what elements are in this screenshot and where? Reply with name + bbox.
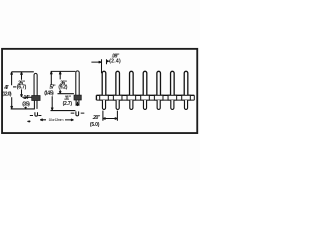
svg-text:(12.0): (12.0)	[2, 91, 12, 97]
header pin 3	[127, 71, 136, 109]
dim .20 line with arrows	[103, 118, 118, 120]
extension line tip P2	[51, 110, 76, 112]
header pin 5	[154, 71, 163, 109]
dim 10or13 left arrow	[40, 119, 46, 121]
header pins	[100, 71, 191, 109]
dim .09 right arrow	[106, 61, 109, 62]
dim 10or13 small right arrow	[27, 121, 30, 122]
pin P2 body	[76, 71, 79, 95]
svg-text:(5.0): (5.0)	[90, 122, 100, 128]
header base strip	[96, 95, 194, 100]
pin P2 tail	[76, 100, 79, 106]
pin P2 tip piece	[76, 111, 79, 115]
svg-text:(6.7): (6.7)	[17, 84, 27, 90]
svg-text:.47: .47	[4, 85, 9, 91]
extension line collar P2	[58, 93, 74, 95]
pin P1 collar	[32, 96, 40, 101]
svg-text:(2.7): (2.7)	[63, 101, 73, 107]
extension line top P2	[51, 70, 76, 72]
header pin 6	[168, 71, 177, 109]
svg-text:10 or 13mm: 10 or 13mm	[49, 118, 64, 122]
dim .47 down arrow	[11, 97, 13, 108]
extension line tip P1	[11, 108, 35, 110]
dim .26 up arrow	[21, 72, 23, 80]
svg-text:.14”: .14”	[23, 95, 30, 101]
extension line top P1	[12, 71, 34, 73]
pin P1 tail	[34, 101, 37, 109]
dim 10or13 right arrow	[65, 119, 74, 121]
header pin 1	[100, 71, 109, 109]
svg-text:(14.5): (14.5)	[44, 91, 54, 97]
pin P2 collar	[74, 95, 81, 100]
border frame	[2, 49, 197, 133]
svg-text:(9.2): (9.2)	[58, 85, 67, 91]
dim .26 down arrow	[21, 89, 23, 97]
svg-text:(3.5): (3.5)	[22, 102, 30, 108]
dim .36 down arrow	[59, 90, 61, 94]
svg-text:.57”: .57”	[49, 84, 56, 90]
dim .57 vertical with up arrow	[50, 72, 52, 85]
header pin 4	[141, 71, 150, 109]
dim .47 vertical with up arrow	[11, 72, 13, 85]
dim .09 left arrow	[91, 61, 101, 63]
pin P1 body	[34, 73, 37, 95]
pin P1 tip piece	[35, 112, 38, 116]
pin P2 tip dashes	[71, 112, 85, 114]
svg-text:.20”: .20”	[92, 115, 100, 121]
dim .20 ext lines	[103, 111, 118, 121]
header strip assembly	[91, 59, 194, 121]
dim .57 down arrow	[51, 96, 53, 110]
dim .36 up arrow	[59, 72, 61, 80]
pin P1 tip dashes	[30, 115, 42, 117]
dim 3.5 down arrow	[25, 107, 27, 109]
header pin 7	[182, 71, 191, 109]
dim .09 ext lines	[102, 59, 107, 73]
svg-text:(2.4): (2.4)	[109, 59, 121, 65]
header pin 2	[113, 71, 122, 109]
extension line collar P1	[22, 96, 32, 98]
dim .47 break tick	[13, 86, 16, 88]
dim 2.7 down arrow on tail	[77, 102, 79, 106]
